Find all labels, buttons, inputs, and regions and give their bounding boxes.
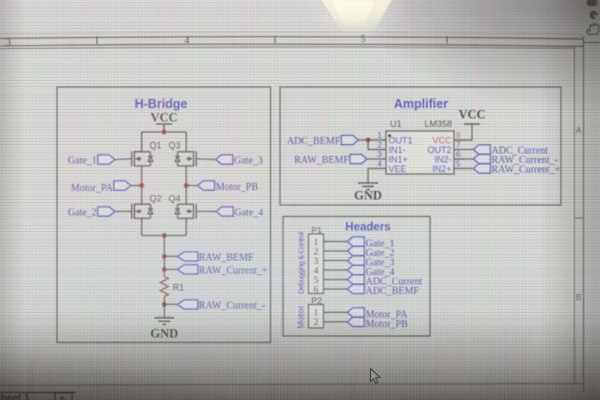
- port RAW_Current_-: [473, 154, 558, 166]
- transistor Q3: [175, 132, 196, 186]
- node Motor_PA junction: [139, 183, 144, 188]
- U1 pin numbers: [377, 131, 461, 169]
- node bottom rail junction: [162, 233, 167, 238]
- ruler band: [0, 36, 583, 47]
- wire to RAW_Current_- port: [164, 303, 177, 305]
- power symbol VCC (H-Bridge): [156, 124, 172, 132]
- port RAW_Current_-: [177, 300, 265, 312]
- port Gate_1 (header): [347, 237, 394, 250]
- sheet top border: [0, 47, 575, 49]
- wire RAW_BEMF to pin 3: [367, 158, 378, 160]
- wires P1 pins to ports: [324, 242, 348, 290]
- toolbar icon partial top: [587, 0, 597, 7]
- Headers block border: [283, 217, 430, 337]
- wire Gate_2 to Q2 gate: [115, 210, 132, 212]
- wire sense stem: [163, 236, 165, 275]
- port RAW_BEMF: [294, 154, 367, 166]
- new-sheet + button: [55, 393, 72, 400]
- port Gate_1: [68, 155, 115, 167]
- wire ADC_BEMF to pin 1: [358, 139, 378, 141]
- U1 pin names: [389, 135, 452, 174]
- wire pin 8 to VCC: [454, 124, 472, 140]
- port Motor_PB (header): [347, 317, 408, 330]
- sheet tab bar top line: [0, 392, 76, 394]
- port RAW_Current_+: [473, 164, 560, 176]
- wire to RAW_BEMF port: [164, 255, 177, 257]
- port Motor_PA: [71, 181, 131, 194]
- wire pin 4 VEE to ground: [368, 169, 378, 184]
- wire feedback to pin 2: [368, 140, 378, 150]
- connector P1 body: [309, 234, 324, 294]
- port ADC_Current (header): [347, 275, 422, 288]
- node RAW_BEMF junction: [162, 254, 167, 259]
- transistor Q4: [175, 186, 196, 236]
- node feedback junction: [366, 138, 371, 143]
- port Gate_4: [216, 207, 263, 219]
- wire R1 to ground: [163, 299, 165, 318]
- port Gate_3: [216, 155, 263, 167]
- wire Q4 gate to Gate_4: [196, 210, 216, 212]
- power symbol VCC (Amplifier): [464, 123, 480, 125]
- node RAW_Current_- junction: [162, 302, 167, 307]
- connector P1 pin numbers: [314, 238, 319, 296]
- wire VCC top rail: [142, 131, 187, 133]
- window edge above ruler: [0, 32, 583, 34]
- sheet right border inner line: [574, 46, 576, 384]
- H-Bridge block border: [57, 87, 271, 343]
- toolbar icon rotate: [590, 11, 599, 19]
- node RAW_Current_+ junction: [162, 267, 167, 272]
- wire right leg to Motor_PB: [186, 185, 197, 187]
- wire bottom rail: [142, 235, 187, 237]
- wire Q3 gate to Gate_3: [196, 158, 216, 161]
- port Motor_PB: [198, 181, 259, 193]
- connector P2 pin numbers: [314, 309, 319, 329]
- port RAW_BEMF: [177, 252, 254, 264]
- resistor R1: [160, 274, 168, 299]
- port Gate_4 (header): [347, 265, 394, 278]
- sheet bottom border: [0, 384, 583, 386]
- right toolbar separator: [584, 42, 600, 44]
- connector P2 body: [309, 305, 324, 329]
- ground symbol (Amplifier): [358, 183, 378, 190]
- transistor Q2: [132, 186, 153, 236]
- wire pin 6 to RAW_Current_-: [462, 158, 473, 160]
- wire Motor_PA to left leg: [131, 185, 142, 187]
- port RAW_Current_+: [177, 265, 268, 277]
- wire pin 7 to ADC_Current: [462, 149, 473, 151]
- port ADC_BEMF: [287, 135, 358, 147]
- transistor Q1: [132, 132, 153, 186]
- op-amp U1 body: [386, 131, 454, 174]
- wires P2 pins to ports: [324, 312, 348, 322]
- wire Gate_1 to Q1 gate: [115, 158, 132, 161]
- port ADC_Current: [473, 145, 548, 157]
- port Gate_2 (header): [347, 246, 394, 259]
- wire to RAW_Current_+ port: [164, 268, 177, 270]
- wire pin 5 to RAW_Current_+: [462, 168, 473, 170]
- port Gate_2: [68, 207, 115, 219]
- port ADC_BEMF (header): [347, 284, 419, 297]
- node VCC rail junction: [162, 130, 167, 135]
- node Motor_PB junction: [184, 183, 189, 188]
- port Motor_PA (header): [347, 308, 408, 321]
- ground symbol (H-Bridge): [154, 318, 174, 325]
- border zone separator tick: [575, 217, 584, 219]
- U1 pin stubs: [378, 140, 462, 169]
- window right edge: [583, 36, 585, 392]
- ruler numbers: [6, 34, 366, 48]
- toolbar icon hand: [587, 24, 599, 35]
- Amplifier block border: [280, 87, 561, 205]
- port Gate_3 (header): [347, 256, 394, 269]
- mouse cursor: [371, 369, 380, 384]
